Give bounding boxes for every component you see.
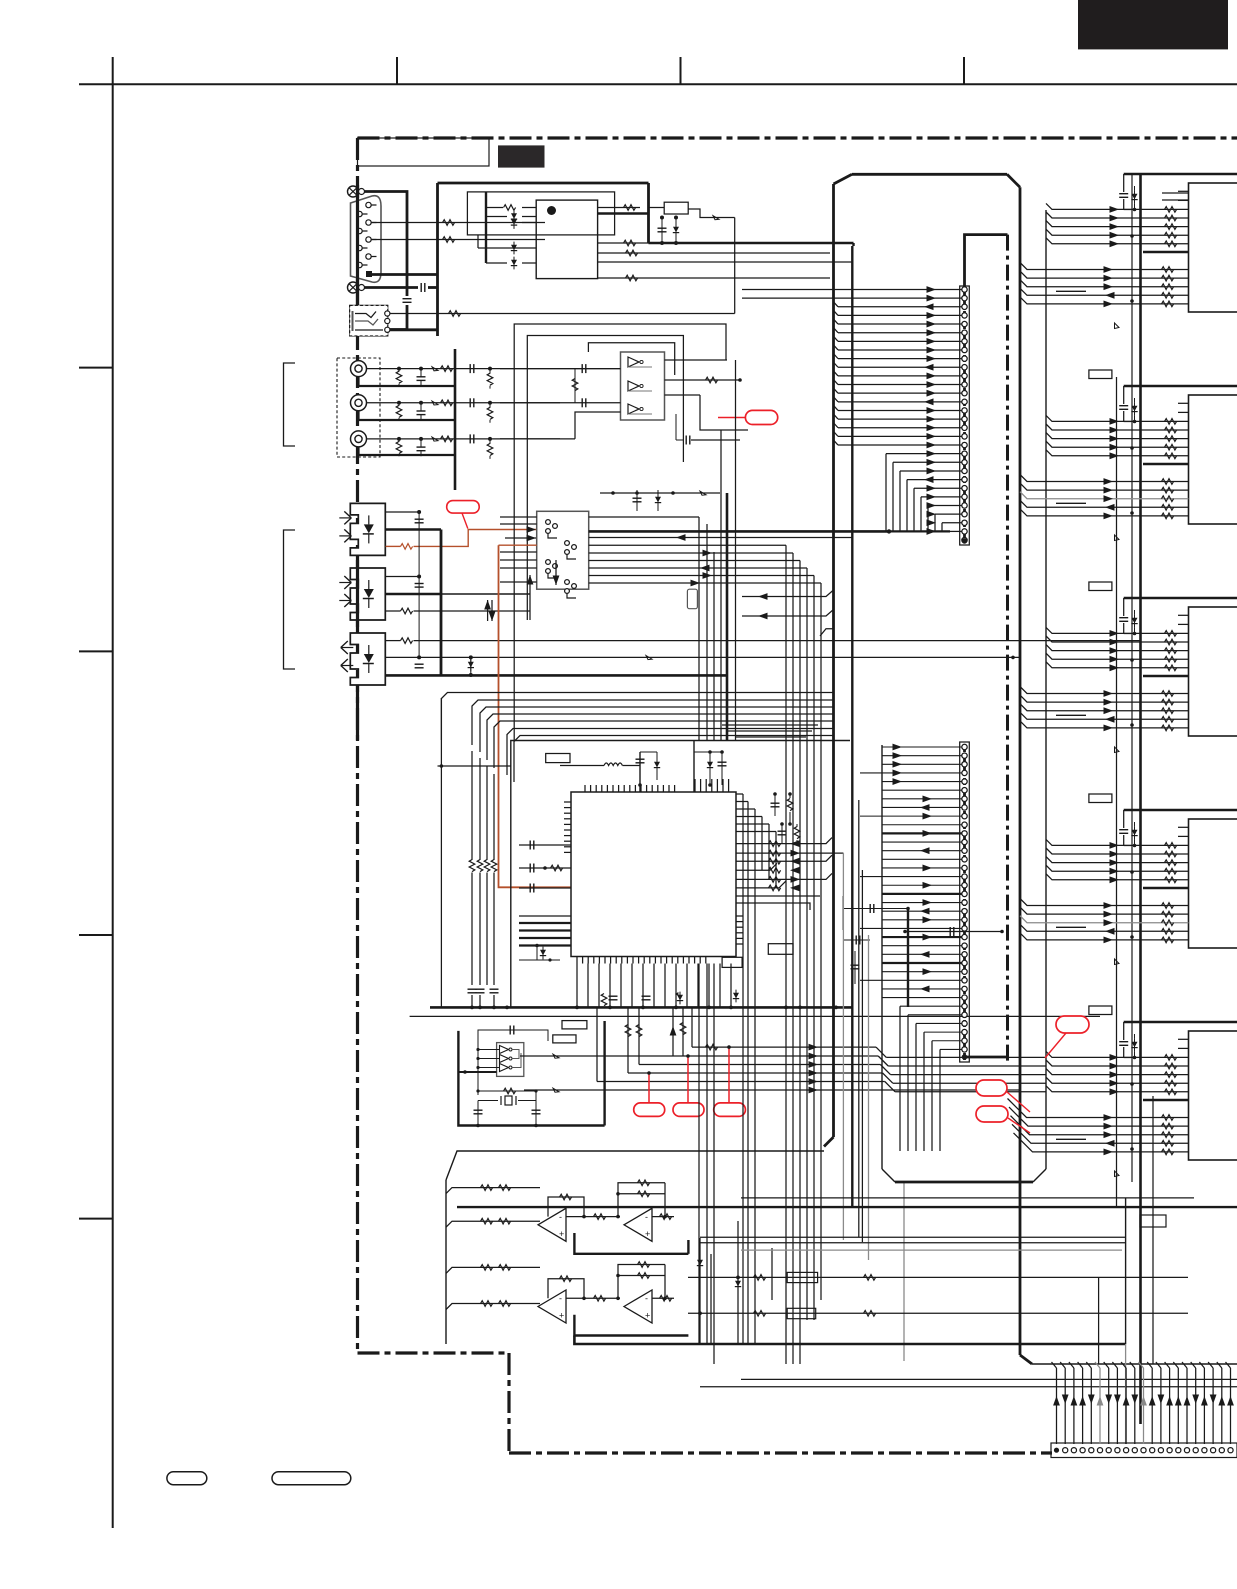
coupling caps RCA to codec (560, 368, 621, 370)
board outline solid segment at connectors (356, 185, 359, 305)
thick net stub U13 (1143, 887, 1189, 889)
red test point oval 3 (714, 1103, 746, 1117)
decoupling cap+diode U12 (1123, 598, 1125, 610)
long bus line 2 thick (457, 1206, 1237, 1208)
dots on rows (736, 1276, 740, 1280)
row to label box 1 (688, 1276, 1188, 1278)
wire OPT1 signal colored (386, 545, 401, 547)
capacitor chain vertical x=419 (418, 512, 420, 657)
inverter IC U4 body (497, 1043, 524, 1077)
op-amp wiring lower pair (538, 1314, 540, 1316)
op-amp input rows (446, 1188, 540, 1194)
long bus line 3 (700, 1236, 1126, 1238)
wire bus to bottom connector (1032, 1363, 1237, 1365)
caps above DSP (639, 752, 641, 792)
CN20 pin wire (1090, 1368, 1092, 1444)
label box right of relay (687, 589, 697, 609)
CN20 pin wire (1230, 1368, 1232, 1444)
zener D1 (470, 657, 472, 675)
svg-text:-: - (645, 1294, 648, 1304)
RCA jack group dashed outline (337, 358, 380, 457)
label box at DSP bottom (722, 957, 742, 967)
cap right of DSP (860, 908, 885, 910)
pin strip upper frame (960, 286, 970, 545)
red annotation callout B (745, 410, 777, 424)
U10 stub pins (1178, 190, 1189, 192)
U1 right wires (598, 207, 640, 209)
crystal X1 (478, 1090, 536, 1092)
clock long row 6 (524, 1089, 1019, 1091)
relay left wires (499, 544, 537, 546)
op-amp U23 triangle (624, 1290, 652, 1323)
red wire down from relay area (499, 545, 572, 887)
inverter input wires (478, 1049, 500, 1051)
margin tick left y=651 (79, 650, 113, 652)
amplifier block U10 body (1189, 183, 1237, 312)
DSP bottom feed verticals into clock area (627, 1007, 629, 1073)
long bus line 1 (741, 1197, 1194, 1199)
red annotation callout C (1056, 1016, 1089, 1033)
net label box bottom right (1140, 1215, 1166, 1227)
verticals mid-channel (742, 794, 744, 1344)
RCA input filter components (397, 401, 401, 405)
components on DSP bottom verticals (601, 994, 607, 1006)
amplifier block U13 body (1189, 819, 1237, 948)
DSP right lower wires (736, 895, 820, 897)
RCA input filter components (397, 367, 401, 371)
margin tick left y=368 (79, 367, 113, 369)
zener on DSP left stub (536, 946, 538, 960)
clock output wires (692, 1046, 876, 1048)
board outline bottom step (358, 1351, 510, 1354)
label boxes above inverter (562, 1021, 587, 1029)
RCA jack J3 (351, 395, 367, 411)
vertical from label wire to jack row (734, 218, 736, 314)
optical output module OPT3 (350, 633, 385, 685)
CN1 pins (366, 202, 371, 207)
relay RY1 body (537, 511, 589, 589)
gray vertical (868, 935, 870, 1260)
power rail above U11 (1124, 385, 1237, 388)
long verticals to DSP left (440, 698, 442, 1007)
tap arrow on vertical 0 (1115, 323, 1120, 329)
lower strip wire fan (882, 746, 962, 748)
decoupling cap+diode U14 (1123, 1022, 1125, 1034)
pin strip lower cap (965, 1056, 1008, 1059)
top stub wires into U10 (1162, 192, 1189, 194)
IC U2 codec body (621, 352, 665, 420)
net label box mid 1 (787, 1272, 817, 1282)
optical bus vertical x=441 lower (440, 530, 443, 676)
margin tick top x=964 (963, 57, 965, 84)
revision dark box (498, 145, 545, 167)
CN1 mounting hole bottom (348, 282, 359, 293)
resistor array DSP left (469, 860, 475, 872)
pin strip upper cap (965, 235, 1008, 289)
DSP right-side rows upper staircase (736, 793, 743, 795)
thick vertical x=834 (832, 184, 835, 1137)
reference pill 1 (167, 1472, 207, 1485)
red annotation callout D (976, 1080, 1007, 1096)
group bracket lower (284, 530, 296, 669)
chamfer to lower board (824, 1137, 834, 1147)
relay coil supply caps (636, 490, 638, 511)
red annotation callout A (447, 501, 480, 513)
svg-text:-: - (559, 1294, 562, 1304)
reference pill 2 (272, 1472, 351, 1485)
resistor R3 on pin5 wire (443, 237, 455, 243)
phone jack J1 dashed outline (350, 305, 388, 336)
CN20 pin wire (1221, 1368, 1223, 1444)
dots on bus (470, 1006, 474, 1010)
gray vertical lower (903, 1182, 905, 1361)
resistor R4 (449, 311, 461, 317)
bus lines above connector (741, 1378, 1237, 1380)
RCA input filter components (397, 437, 401, 441)
decoupling caps right of U1 (660, 216, 664, 220)
power rail above U12 (1124, 597, 1237, 600)
right channel thick vertical x=1140.5 (1139, 174, 1142, 1424)
margin tick left y=1219 (79, 1218, 113, 1220)
wire CN1 bottom shell (365, 286, 419, 289)
DSP right-side rows lower (resistor+arrow) (736, 838, 832, 844)
net label box above U14 (1089, 1006, 1112, 1015)
group bracket upper (284, 363, 296, 446)
caps top of inverter block (495, 1029, 530, 1031)
channel bus verticals between DSP and connector (726, 493, 729, 741)
wire RCA1 signal (367, 368, 561, 370)
optical OPT3 wires (386, 640, 401, 642)
CN20 pin wire (1056, 1368, 1058, 1444)
CN20 pin wire (1203, 1368, 1205, 1444)
gray link to connector (1125, 1344, 1127, 1444)
U1 left wires with resistors (522, 207, 536, 209)
tap arrow on vertical 3 (1115, 959, 1120, 965)
pin strip upper spine (963, 289, 966, 541)
thick net stub U11 (1143, 463, 1189, 465)
svg-text:-: - (559, 1212, 562, 1222)
thin enclosure around codec stage A (514, 324, 726, 741)
board outline bottom edge to connector (509, 1451, 1052, 1454)
thick net y=243 (649, 242, 854, 244)
label box U1 out (664, 202, 688, 214)
connector CN10 outline top (852, 173, 1007, 176)
label box above DSP (546, 754, 570, 763)
inverter gates (500, 1046, 509, 1054)
DSP pins bottom (576, 957, 578, 964)
board outline top edge (dash-dot) (358, 136, 1237, 139)
wire RCA3 signal (367, 438, 561, 440)
optical OPT2 wires (386, 576, 420, 578)
DSP pins right lower (736, 915, 743, 917)
bottom connector CN20 strip (1051, 1443, 1237, 1458)
svg-text:+: + (645, 1229, 650, 1239)
thick output bus lower (687, 1240, 689, 1254)
amplifier block U11 body (1189, 395, 1237, 524)
CN20 pin wire (1151, 1368, 1153, 1444)
wire into shield from left (438, 765, 511, 767)
net bus vertical x=437 (436, 183, 439, 336)
shield box bottom line (410, 1015, 1100, 1017)
pin strip lower spine (963, 745, 966, 1060)
wire bundle elbows from connector to DSP (441, 693, 833, 741)
caps above DSP right group (693, 741, 695, 793)
wire J1 tip (390, 313, 735, 315)
inverter enclosure bus (458, 1031, 604, 1126)
tap arrow on vertical 1 (1115, 535, 1120, 541)
long bus line 4 (700, 1242, 1126, 1244)
label box right of DSP (768, 944, 793, 955)
U1 bus vertical right (647, 183, 650, 243)
inductor L1 (604, 763, 622, 766)
U2 buffer triangles (628, 357, 639, 367)
pin strip lower pins (962, 744, 967, 749)
thick ground bus under DSP (430, 1006, 852, 1009)
phone jack contacts (352, 311, 354, 331)
wire CN1 pin3 (371, 222, 545, 224)
U1 pin1 dot (547, 206, 556, 215)
CN20 pin wire (1108, 1368, 1110, 1444)
op-amp U22 triangle (538, 1290, 566, 1323)
page corner black title block (1078, 0, 1228, 49)
RCA ground bus vertical (454, 349, 457, 490)
caps on right rows (774, 794, 776, 816)
connector CN10 right edge (1019, 187, 1022, 1355)
verticals relay to DSP top (698, 517, 700, 740)
inverter power wire (465, 1071, 497, 1073)
decoupling cap+diode U13 (1123, 810, 1125, 822)
U1 left feed verticals (485, 192, 487, 263)
margin tick top x=680 (680, 57, 682, 84)
optical OPT1 wires (386, 511, 420, 513)
wire CN1 pin9 thick (369, 273, 438, 276)
U2 right side wires (665, 359, 728, 361)
small arrow tap (646, 656, 652, 660)
CN20 pin wire (1125, 1368, 1127, 1444)
page margin left vertical line (112, 57, 114, 1528)
IC U1 body (536, 200, 597, 279)
connector CN10 inner left edge (881, 745, 883, 1169)
feedback caps on U2 (675, 414, 677, 440)
tap arrow on vertical 4 (1115, 1171, 1120, 1177)
page margin top horizontal line (79, 83, 1237, 85)
op-amp wiring upper pair (538, 1232, 540, 1234)
inverter internal wiring (512, 1050, 519, 1059)
RCA jack J2 (351, 361, 367, 377)
CN20 pin wire (1099, 1368, 1101, 1444)
DSP bottom verticals to bus (576, 964, 578, 1008)
connector CN10 bottom edge (895, 1181, 1033, 1184)
wire group A into U12 (1046, 627, 1189, 633)
thick vertical x=852 (851, 246, 853, 1207)
U12 stub pins (1178, 614, 1189, 616)
bias resistor ladder (574, 369, 576, 403)
DSP shield box outline (511, 741, 850, 1008)
thick net stub U14 (1143, 1099, 1189, 1101)
caps at DSP left bottom (468, 988, 477, 990)
wire group A into U10 (1046, 203, 1189, 209)
DSP pins top (584, 785, 586, 792)
CN20 pin wire (1186, 1368, 1188, 1444)
board outline left edge (dash-dot) (356, 138, 359, 1353)
op-amp U21 triangle (624, 1208, 652, 1241)
CN20 pin wire (1064, 1368, 1066, 1444)
cap pair lower right of DSP (905, 931, 960, 933)
thick net stub U12 (1143, 675, 1189, 677)
codec output drops (706, 523, 708, 525)
CN20 pin wire (1177, 1368, 1179, 1444)
connector CN1 D-sub 9pin body (351, 196, 382, 283)
pin strip upper pins (962, 287, 967, 292)
wire group B into U14 (1008, 1099, 1189, 1118)
DSP pins left (564, 801, 571, 803)
board outline solid at optical (356, 560, 359, 633)
CN20 pin wire (1160, 1368, 1162, 1444)
DSP pins extra top right (694, 779, 696, 792)
margin tick top x=397 (396, 57, 398, 84)
wire CN1 pin5 (371, 239, 545, 241)
upper strip thick feed (889, 530, 950, 532)
pin strip lower frame (960, 742, 970, 1062)
svg-text:+: + (559, 1229, 564, 1239)
optical input module OPT1 (350, 503, 385, 555)
net bus top horizontal y=183 (438, 182, 649, 185)
CN20 pin wire (1143, 1368, 1145, 1444)
decoupling cap+diode U11 (1123, 386, 1125, 398)
crystal load caps (477, 1101, 479, 1119)
CN20 pin wire (1212, 1368, 1214, 1444)
capacitor C1 series in shell wire (403, 298, 412, 300)
right channel thin vertical x=1116 (1116, 377, 1118, 1207)
schematic title box (358, 138, 490, 166)
verticals in opamp area (699, 1238, 701, 1344)
power rail above U13 (1124, 809, 1237, 812)
arrows vertical near relay (529, 575, 531, 620)
upper strip wire fan (742, 289, 962, 291)
svg-text:-: - (645, 1212, 648, 1222)
relay right wires (589, 516, 699, 518)
CN20 pin wire (1169, 1368, 1171, 1444)
wire group A into U14 (1046, 1051, 1189, 1057)
wire group B into U13 (1020, 899, 1189, 906)
decoupling cap+diode U10 (1123, 174, 1125, 186)
svg-text:+: + (645, 1311, 650, 1321)
U11 stub pins (1178, 402, 1189, 404)
chamfer joins on x=834 (742, 590, 834, 597)
CN1 mounting hole top (348, 186, 359, 197)
net label box mid 2 (787, 1308, 816, 1318)
IC U1 outer shield box (467, 192, 614, 235)
CN20 pin wire (1082, 1368, 1084, 1444)
arrow marks into relay (527, 526, 537, 533)
optical input module OPT2 (350, 568, 385, 620)
wire group A into U11 (1046, 415, 1189, 421)
CN20 pin wire (1116, 1368, 1118, 1444)
thin enclosure around codec stage B (527, 336, 683, 621)
tap arrow on vertical 2 (1115, 747, 1120, 753)
wire group B into U11 (1020, 475, 1189, 482)
amplifier block U12 body (1189, 607, 1237, 736)
right channel thin vertical x=1132 (1131, 174, 1133, 1182)
wire CN1 shell to net (365, 192, 408, 297)
power rail above U14 (1124, 1021, 1237, 1024)
capacitor C2 series (420, 283, 422, 292)
wire group A into U13 (1046, 839, 1189, 845)
resistor R2 on pin3 wire (443, 220, 455, 226)
wire RCA2 signal (367, 402, 561, 404)
svg-text:+: + (559, 1311, 564, 1321)
DSP left coupling caps (519, 844, 545, 846)
verticals below DSP continuing (698, 964, 700, 1345)
RCA jack J4 (351, 431, 367, 447)
RCA wires into U2 (500, 368, 621, 370)
vertical link x=1098.6 (1098, 1277, 1100, 1364)
analog board outline top edge (446, 1151, 824, 1180)
U14 stub pins (1178, 1038, 1189, 1040)
amplifier block U14 body (1189, 1031, 1237, 1160)
dots on clock wires (647, 1071, 651, 1075)
wire group B into U12 (1020, 687, 1189, 694)
DSP IC U3 body (571, 792, 736, 957)
red test point oval 1 (634, 1103, 665, 1117)
vertical link x=1125.6 (1125, 1198, 1127, 1344)
net label box above U12 (1089, 582, 1112, 591)
staircase horizontals to channel (722, 724, 818, 726)
connector CN10 inner right edge (1045, 210, 1047, 1169)
long bus line 5 gray (741, 1249, 1122, 1251)
CN20 pin wire (1134, 1368, 1136, 1444)
row to label box 2 (688, 1312, 1188, 1314)
U13 stub pins (1178, 826, 1189, 828)
red test point oval 2 (673, 1103, 704, 1117)
power rail above U10 (1124, 173, 1237, 176)
thin enclosure around codec stage C (588, 343, 674, 375)
relay contact symbols (546, 520, 551, 525)
CN20 pin wire (1073, 1368, 1075, 1444)
thick net stub U10 (1143, 251, 1189, 253)
thick stubs left of DSP (519, 922, 571, 924)
op-amp U20 triangle (538, 1208, 566, 1241)
dash-dot spine x=1007.5 (1006, 235, 1009, 1062)
wire group B into U10 (1020, 263, 1189, 270)
margin tick left y=935 (79, 934, 113, 936)
wire J1 sleeve thick (390, 328, 438, 331)
net label box above U13 (1089, 794, 1112, 803)
red annotation callout E (976, 1106, 1008, 1122)
red test point stems (648, 1073, 650, 1103)
vertical link x=1153 (1152, 1096, 1154, 1364)
CN20 pin wire (1195, 1368, 1197, 1444)
RCA ground returns (359, 377, 456, 386)
net label box above U11 (1089, 370, 1112, 379)
channel verticals right set (785, 545, 787, 1364)
